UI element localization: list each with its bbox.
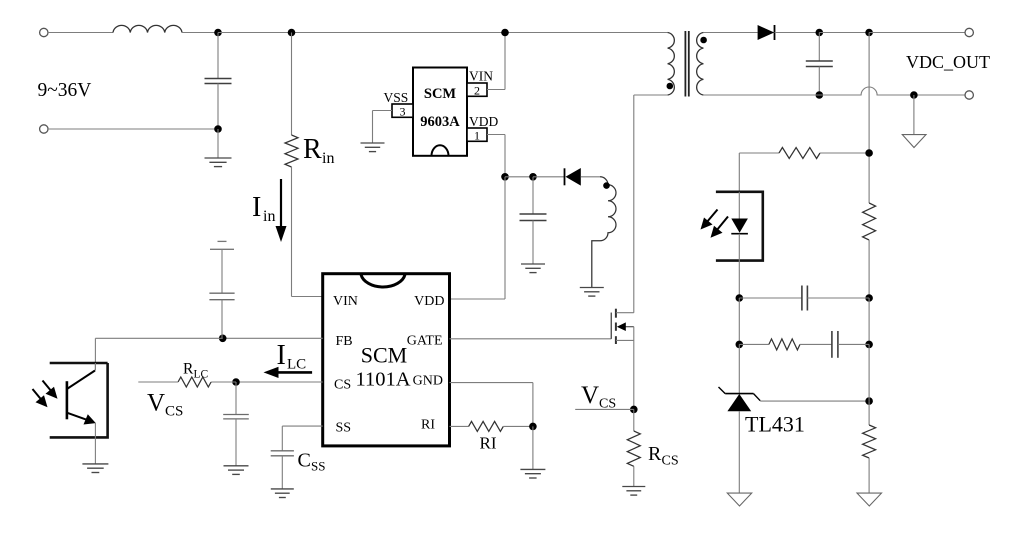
node N (divider row2) — [865, 341, 873, 349]
label U1 1101A — [355, 369, 410, 391]
label Iin — [252, 192, 275, 225]
svg-text:GATE: GATE — [407, 334, 443, 349]
capacitor C5 (CS filter) — [223, 382, 249, 466]
pin 2 of U2 (VIN) — [467, 83, 487, 97]
controller U1 SCM1101A body — [323, 274, 450, 446]
node G (output +) — [816, 29, 824, 37]
wire node Q to opto collector — [95, 338, 222, 369]
label RLC — [183, 361, 209, 381]
node I (divider tap top) — [865, 29, 873, 37]
transistor Q1 (MOSFET) — [611, 309, 634, 410]
pin label VIN (U2) — [469, 69, 493, 84]
svg-text:RI: RI — [480, 434, 497, 453]
label U1 SCM — [361, 343, 407, 368]
wire GATE pin to Q1 — [450, 313, 612, 339]
capacitor C2 (VDD) — [520, 177, 547, 264]
label TL431 — [745, 412, 805, 437]
optocoupler U3 transistor box — [50, 363, 108, 437]
svg-text:9603A: 9603A — [420, 114, 460, 130]
svg-text:V: V — [147, 390, 165, 417]
svg-text:SCM: SCM — [424, 86, 457, 102]
ground (TL431) — [727, 493, 751, 506]
node S (RI/GND) — [529, 423, 537, 431]
node A (top rail left) — [214, 29, 222, 37]
wire input+ to inductor — [48, 32, 113, 34]
U3 incident light arrows — [33, 381, 58, 408]
phase dot T1 secondary — [700, 37, 707, 44]
node C (top rail / Rin) — [288, 29, 296, 37]
label CSS — [298, 450, 326, 474]
shunt regulator TL431 — [719, 387, 761, 411]
inductor L2 (aux winding) — [592, 177, 616, 288]
phase dot L2 — [603, 182, 610, 189]
node L (R4/divider) — [865, 149, 873, 157]
pin label VSS (U2) — [384, 90, 409, 105]
wire node F to D2 — [533, 176, 564, 178]
wire node S to ground — [532, 426, 534, 469]
svg-text:FB: FB — [336, 334, 353, 349]
svg-text:TL431: TL431 — [745, 412, 805, 437]
svg-text:CS: CS — [165, 404, 183, 420]
wire R7 to ground — [868, 458, 870, 493]
wire node M to node O — [738, 298, 740, 344]
wire input- to node B — [48, 128, 218, 130]
ground (U3 emitter) — [82, 464, 108, 473]
svg-text:CS: CS — [334, 378, 351, 393]
wire SS pin to CSS — [282, 426, 322, 451]
svg-text:V: V — [581, 382, 599, 409]
wire node C down to Rin — [291, 33, 293, 136]
U4 emission arrows — [701, 210, 729, 238]
optocoupler U4 LED — [731, 192, 748, 298]
node P (divider row3) — [865, 397, 873, 405]
pin label VDD (U1) — [414, 294, 444, 309]
diode D3 (output rectifier) — [758, 25, 820, 40]
svg-text:VDD: VDD — [469, 114, 498, 129]
ground (U2 VSS) — [361, 143, 385, 152]
label U2 9603A — [420, 114, 460, 130]
node E (VDD rail) — [501, 173, 509, 181]
wire secondary top to D3 — [703, 32, 757, 34]
ground (C2) — [521, 264, 545, 273]
svg-text:in: in — [322, 150, 334, 167]
resistor R5 (divider upper) — [863, 203, 876, 240]
pin label CS (U1) — [334, 378, 351, 393]
svg-text:2: 2 — [474, 83, 480, 97]
wire R4 to opto LED — [738, 153, 740, 192]
ground (input filter) — [205, 129, 232, 167]
svg-text:9~36V: 9~36V — [38, 80, 92, 101]
node H (output cap bottom) — [816, 91, 824, 99]
ground (CSS) — [271, 489, 294, 498]
label U2 SCM — [424, 86, 457, 102]
svg-text:I: I — [277, 340, 286, 371]
svg-text:GND: GND — [413, 373, 443, 388]
label RI — [480, 434, 497, 453]
svg-text:VIN: VIN — [469, 69, 493, 84]
capacitor C1 (input filter) — [205, 33, 232, 130]
label Rin — [303, 134, 334, 167]
node F (C2 top) — [529, 173, 537, 181]
node T (VCS sense) — [630, 406, 638, 414]
capacitor C3/C4 stack (FB) — [209, 241, 234, 338]
optocoupler U3 phototransistor — [67, 363, 96, 464]
wire node I down to R5 — [868, 33, 870, 204]
wire node I to output terminal — [869, 32, 965, 34]
svg-text:VIN: VIN — [333, 294, 358, 309]
label VDC_OUT — [906, 52, 990, 72]
wire FB to node Q — [223, 337, 323, 339]
wire GND pin to node S — [450, 383, 533, 427]
label 9~36V — [38, 80, 92, 101]
node R (CS) — [232, 378, 240, 386]
node D (top rail / pin2) — [501, 29, 509, 37]
wire secondary bottom rail with hop — [703, 87, 965, 95]
ground (C5) — [224, 466, 249, 475]
capacitor C8 (feedback) — [739, 286, 869, 311]
ground (aux winding) — [580, 288, 604, 297]
resistor Rin — [285, 135, 298, 167]
pin 3 of U2 (VSS) — [392, 104, 413, 118]
wire inductor to node A — [182, 32, 218, 34]
resistor RCS — [627, 409, 640, 486]
svg-text:VDC_OUT: VDC_OUT — [906, 52, 990, 72]
wire node O to TL431 — [738, 344, 740, 393]
transformer T1 core — [685, 31, 688, 97]
label RCS — [648, 443, 679, 469]
wire pin2 to top rail — [487, 33, 505, 90]
resistor R7 (divider lower) — [863, 425, 876, 458]
optocoupler U4 LED box — [716, 192, 763, 261]
resistor R6 + capacitor C9 (compensation) — [739, 331, 869, 358]
inductor L1 (input filter) — [113, 25, 182, 32]
svg-text:LC: LC — [194, 369, 209, 381]
ground (RCS) — [622, 487, 645, 496]
svg-text:SS: SS — [311, 459, 325, 474]
svg-text:CS: CS — [599, 397, 616, 412]
wire node J down — [913, 95, 915, 135]
svg-text:VDD: VDD — [414, 294, 444, 309]
wire TL431 anode down — [738, 411, 740, 493]
pin label GATE (U1) — [407, 334, 443, 349]
diode D2 (aux rectifier) — [565, 168, 601, 186]
svg-text:SCM: SCM — [361, 343, 407, 368]
ground (RI) — [520, 469, 545, 478]
wire TL431 ref to node P — [760, 400, 869, 402]
svg-text:LC: LC — [287, 357, 306, 373]
svg-text:1101A: 1101A — [355, 369, 410, 391]
label VCS (sense) — [581, 382, 616, 412]
pin label VIN (U1) — [333, 294, 358, 309]
op-amp U2 SCM9603A body — [413, 68, 467, 156]
node O (opto row2) — [736, 341, 744, 349]
label ILC — [277, 340, 307, 373]
output terminal - (VDC_OUT) — [965, 91, 973, 99]
wire pin1 to VDD node — [487, 135, 505, 177]
label VCS (left) — [147, 390, 183, 420]
transformer T1 secondary winding — [697, 33, 704, 96]
node M (opto/C8) — [736, 294, 744, 302]
pin label GND (U1) — [413, 373, 443, 388]
capacitor C7 (output) — [806, 33, 833, 96]
wire primary bottom to drain — [634, 95, 668, 313]
svg-text:1: 1 — [474, 128, 480, 142]
current arrow ILC — [264, 367, 313, 378]
svg-text:R: R — [303, 134, 322, 165]
svg-text:R: R — [648, 443, 662, 465]
svg-text:VSS: VSS — [384, 90, 409, 105]
node B — [214, 125, 222, 133]
wire VDD node to C2 — [505, 176, 533, 178]
chassis ground (output -) — [902, 135, 926, 148]
resistor RI — [450, 421, 533, 431]
pin label VDD (U2) — [469, 114, 498, 129]
wire CS pin to node R — [236, 381, 323, 383]
input terminal - (9~36V) — [40, 125, 48, 133]
current arrow Iin — [276, 179, 287, 242]
svg-text:RI: RI — [421, 417, 435, 432]
resistor RLC — [138, 377, 236, 387]
svg-text:3: 3 — [400, 104, 406, 118]
wire VCS stub — [575, 408, 634, 410]
output terminal + (VDC_OUT) — [965, 28, 973, 36]
resistor R4 (to opto LED) — [739, 148, 869, 159]
pin label FB (U1) — [336, 334, 353, 349]
wire Rin to VIN pin of U1 — [292, 167, 323, 297]
svg-text:C: C — [298, 450, 311, 472]
transformer T1 primary winding — [668, 33, 675, 96]
wire R5 to node K — [868, 240, 870, 298]
svg-text:CS: CS — [662, 454, 679, 469]
svg-text:in: in — [263, 208, 275, 225]
wire node K to node N — [868, 298, 870, 344]
pin 1 of U2 (VDD) — [467, 128, 487, 142]
wire node P to R7 — [868, 401, 870, 425]
pin label RI (U1) — [421, 417, 435, 432]
wire pin3 to ground — [373, 111, 393, 144]
node K (divider mid) — [865, 294, 873, 302]
ground (divider) — [857, 493, 882, 506]
node Q (FB) — [219, 335, 227, 343]
svg-text:R: R — [183, 361, 194, 378]
input terminal + (9~36V) — [40, 28, 48, 36]
pin label SS (U1) — [336, 421, 352, 436]
phase dot T1 primary — [667, 83, 674, 90]
capacitor CSS — [271, 451, 294, 489]
node J (output -) — [910, 91, 918, 99]
wire node G to node I — [819, 32, 869, 34]
svg-text:I: I — [252, 192, 261, 223]
wire VDD node to U1 VDD — [450, 177, 506, 299]
wire top rail — [218, 32, 668, 34]
svg-text:SS: SS — [336, 421, 352, 436]
wire node N to node P — [868, 344, 870, 401]
